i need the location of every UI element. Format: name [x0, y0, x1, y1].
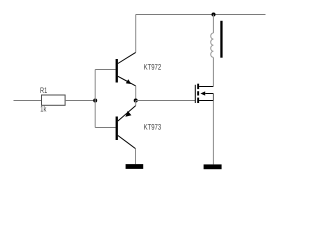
inductor L1 [211, 33, 214, 57]
transistor Q1 KT972 (NPN) [116, 52, 162, 86]
wire base vertical [94, 70, 96, 128]
svg-text:1k: 1k [40, 105, 47, 114]
wire resistor to base node [65, 100, 95, 102]
wire base to Q2 [95, 127, 116, 129]
wire Q1 emitter down [135, 86, 137, 101]
transistor Q2 KT973 (PNP) [116, 106, 162, 149]
wire top rail [136, 14, 266, 16]
node emitter junction [134, 99, 138, 103]
node base junction [93, 99, 97, 103]
wire source down [212, 101, 214, 165]
wire base to Q1 [95, 69, 116, 71]
wire Q1 collector up [135, 15, 137, 53]
wire Q2 emitter up [135, 101, 137, 106]
resistor R1 [40, 86, 65, 114]
wire Q2 collector down [135, 149, 137, 165]
ground right [204, 164, 222, 169]
node top rail junction [212, 13, 216, 17]
svg-text:R1: R1 [40, 86, 48, 95]
wire input left [14, 100, 42, 102]
transistor Q3 MOSFET [195, 84, 213, 103]
wire top rail to inductor [212, 15, 214, 34]
svg-text:KT972: KT972 [144, 63, 162, 72]
wire gate [136, 100, 196, 102]
ground left [126, 164, 144, 169]
inductor core bar [220, 21, 222, 58]
wire drain up to inductor [212, 57, 214, 86]
svg-text:KT973: KT973 [144, 123, 162, 132]
